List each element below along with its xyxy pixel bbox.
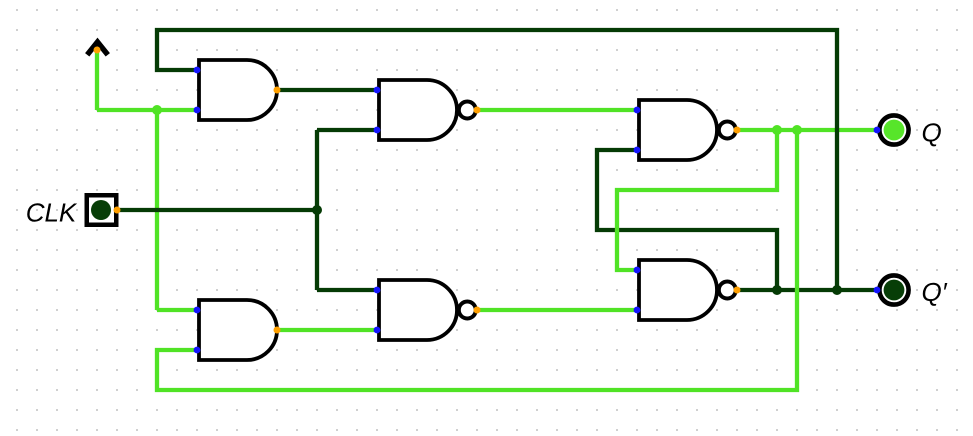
wire to U3 input A	[157, 308, 197, 312]
junction on CLK wire	[312, 205, 322, 215]
input CLK	[87, 195, 117, 225]
wire top feedback from Q' to U1 input A	[157, 30, 837, 290]
and-gate U1	[199, 60, 277, 120]
wire Q' output horizontal	[737, 288, 877, 292]
junction on Q wire 1	[772, 125, 782, 135]
wire VDD to U1 input B	[97, 108, 197, 112]
and-gate U3	[199, 300, 277, 360]
wire CLK to U4 input A	[317, 288, 377, 292]
nand-gate U6	[639, 260, 736, 320]
pin U3.A	[194, 307, 201, 314]
output Q	[879, 115, 908, 144]
svg-text:CLK: CLK	[26, 197, 78, 227]
pin U2.A	[374, 87, 381, 94]
wire U1 out to U2 input A	[277, 88, 377, 92]
pin U4.B	[374, 327, 381, 334]
pin U4.out	[474, 307, 481, 314]
junction at VDD branch	[152, 105, 162, 115]
wire VDD branch down	[155, 110, 159, 310]
wire Q output horizontal (high)	[737, 128, 877, 132]
wire U4 out to U6 input B	[477, 308, 637, 312]
junction on Q wire 2	[792, 125, 802, 135]
nand-gate U2	[379, 80, 476, 140]
VDD supply symbol	[87, 42, 108, 55]
nand-gate U4	[379, 280, 476, 340]
input pin dots (blue)	[194, 67, 881, 354]
pin U1.out	[274, 87, 281, 94]
wire CLK vertical branch	[315, 130, 319, 290]
wire U3 out to U4 input B	[277, 328, 377, 332]
output Q'	[879, 275, 908, 304]
pin U5.B	[634, 147, 641, 154]
wire Q branch to U6 input A	[617, 130, 777, 270]
pin U6.out	[734, 287, 741, 294]
pin U5.out	[734, 127, 741, 134]
wire VDD vertical	[95, 50, 99, 110]
pin U5.A	[634, 107, 641, 114]
pin U3.out	[274, 327, 281, 334]
wire CLK horizontal	[117, 208, 317, 212]
pin Q' in	[874, 287, 881, 294]
svg-text:Q′: Q′	[922, 277, 948, 307]
pin U3.B	[194, 347, 201, 354]
wire CLK to U2 input B	[317, 128, 377, 132]
pin U6.A	[634, 267, 641, 274]
nand-gate U5	[639, 100, 736, 160]
pin Q in	[874, 127, 881, 134]
pin U1.A	[194, 67, 201, 74]
svg-text:Q: Q	[922, 117, 942, 147]
output pin dots (orange)	[94, 47, 741, 334]
pin U2.out	[474, 107, 481, 114]
pin U6.B	[634, 307, 641, 314]
pin U4.A	[374, 287, 381, 294]
wire VDD net (high, light green)	[97, 50, 197, 310]
junction on Q' wire 1	[772, 285, 782, 295]
pin VDD	[94, 47, 101, 54]
pin U1.B	[194, 107, 201, 114]
dark (low) wires	[117, 30, 877, 290]
junction on Q' wire 2	[832, 285, 842, 295]
wire Q branch to U3 input B	[157, 130, 797, 390]
pin U2.B	[374, 127, 381, 134]
wire U2 out to U5 input A	[477, 108, 637, 112]
wire Q' branch to U5 input B	[597, 150, 777, 290]
pin CLK out	[114, 207, 121, 214]
remaining light green (high) wires	[157, 110, 797, 390]
